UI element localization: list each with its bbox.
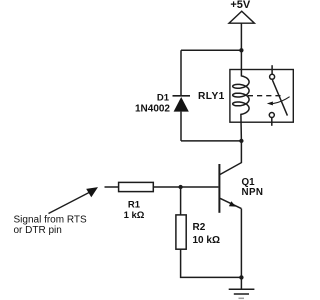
wire top horizontal to diode [181, 49, 241, 51]
switch blade [272, 80, 287, 116]
wire input to R1 [105, 186, 119, 188]
svg-text:10 kΩ: 10 kΩ [193, 235, 220, 246]
wire R1 to base [153, 186, 218, 188]
switch top contact [270, 74, 275, 79]
relay RLY1 box [230, 70, 293, 123]
power supply +5V symbol [229, 11, 254, 23]
transistor Q1 base bar [218, 164, 220, 213]
wire collector [220, 141, 241, 175]
svg-text:D1: D1 [157, 93, 170, 104]
wire diode anode down [180, 112, 182, 141]
resistor R2 [176, 215, 186, 249]
switch motion arrow [267, 97, 290, 106]
wire diode to collector node [181, 140, 241, 142]
relay coil [233, 69, 249, 141]
wire diode cathode up [180, 50, 182, 96]
transistor Q1 emitter with arrow [220, 198, 241, 208]
svg-text:1 kΩ: 1 kΩ [124, 210, 145, 221]
svg-text:Signal from RTS: Signal from RTS [14, 214, 88, 225]
svg-text:R1: R1 [128, 200, 141, 211]
wire emitter down [240, 209, 242, 278]
dashed linkage [248, 95, 281, 97]
node junction ground [239, 275, 243, 279]
node junction base [178, 185, 182, 189]
svg-text:RLY1: RLY1 [198, 91, 225, 102]
node junction top [239, 48, 243, 52]
signal input arrow [49, 187, 99, 213]
switch bottom pin [271, 118, 273, 126]
svg-text:+5V: +5V [230, 0, 251, 11]
wire R2 bottom to ground node [181, 249, 242, 277]
resistor R1 [119, 182, 154, 191]
wire +5V down to relay coil [240, 23, 242, 69]
svg-text:R2: R2 [193, 222, 206, 233]
svg-text:NPN: NPN [242, 187, 264, 198]
wire base node down to R2 [180, 187, 182, 215]
switch bottom contact [269, 113, 274, 118]
switch top pin [271, 65, 273, 74]
ground [229, 277, 255, 298]
svg-text:1N4002: 1N4002 [135, 104, 170, 115]
diode D1 [173, 96, 191, 112]
node junction collector [239, 139, 243, 143]
svg-text:or DTR pin: or DTR pin [14, 225, 62, 236]
